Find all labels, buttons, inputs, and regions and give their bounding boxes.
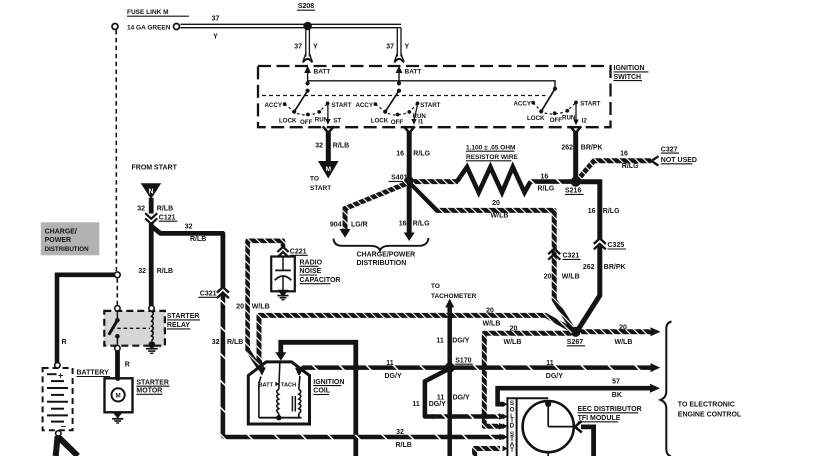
svg-text:I2: I2 — [582, 118, 588, 125]
svg-text:C121: C121 — [159, 214, 176, 221]
svg-text:32: 32 — [212, 339, 220, 346]
starter relay box — [104, 311, 165, 346]
svg-text:262: 262 — [561, 144, 573, 151]
svg-text:16: 16 — [396, 150, 404, 157]
wire R relay to starter motor — [115, 351, 120, 378]
svg-text:C321: C321 — [200, 291, 217, 298]
wire 20 W/LB coil BATT to S267 — [259, 315, 574, 368]
svg-text:START: START — [310, 185, 331, 192]
svg-text:START: START — [331, 102, 351, 109]
svg-text:11: 11 — [436, 337, 444, 344]
svg-text:COIL: COIL — [313, 388, 330, 395]
splice S216 — [571, 177, 581, 187]
splice S267 — [571, 327, 581, 337]
svg-text:N: N — [148, 188, 153, 195]
wire 904 LG/R from S401 — [345, 184, 407, 230]
svg-text:DG/Y: DG/Y — [385, 373, 402, 380]
svg-text:W/LB: W/LB — [483, 320, 501, 327]
wire 32 R/LB from N arrow — [149, 198, 154, 214]
svg-text:TO: TO — [310, 175, 319, 182]
svg-text:262: 262 — [583, 264, 595, 271]
svg-text:DG/Y: DG/Y — [452, 337, 469, 344]
svg-text:R/LB: R/LB — [396, 442, 412, 449]
svg-text:20: 20 — [486, 307, 494, 314]
coil bottom bus — [259, 417, 302, 419]
EEC distributor circle — [523, 401, 574, 452]
wire 20 W/LB arrow S267 to engine control — [580, 329, 652, 334]
coil BATT terminal arrow — [257, 367, 266, 375]
svg-text:32: 32 — [315, 143, 323, 150]
svg-text:37: 37 — [212, 16, 220, 23]
svg-text:TO ELECTRONIC: TO ELECTRONIC — [678, 402, 735, 409]
switch section 2 contacts — [374, 102, 378, 106]
ignition switch dashed box — [258, 66, 611, 127]
switch section 1 pivot — [306, 81, 310, 85]
svg-text:I1: I1 — [418, 118, 424, 125]
switch section 1 blade — [294, 91, 307, 112]
wire 11 DG/Y down from S170 — [447, 370, 452, 456]
svg-text:M: M — [116, 393, 121, 400]
svg-text:NOISE: NOISE — [300, 268, 322, 275]
svg-text:DG/Y: DG/Y — [546, 373, 563, 380]
svg-text:R/LG: R/LG — [603, 208, 620, 215]
svg-text:16: 16 — [541, 173, 549, 180]
svg-text:M: M — [326, 166, 331, 173]
connector C121 — [145, 213, 157, 224]
relay blade switch — [116, 311, 118, 318]
wire 11 DG/Y coil TACH to S170 to engine control arrow — [295, 368, 303, 375]
svg-text:32: 32 — [138, 268, 146, 275]
wire 37 Y horizontal double line — [181, 23, 402, 25]
svg-text:–: – — [61, 421, 66, 431]
svg-text:DISTRIBUTION: DISTRIBUTION — [45, 246, 90, 253]
svg-text:CHARGE/POWER: CHARGE/POWER — [357, 251, 416, 258]
svg-text:TACH: TACH — [281, 382, 296, 388]
wire R battery positive cable — [57, 275, 115, 364]
wire 32 R/LB branch right to C321 — [151, 226, 223, 289]
relay terminals — [115, 306, 120, 311]
mechanical linkage dashed line — [262, 95, 546, 97]
svg-text:IGNITION: IGNITION — [614, 65, 645, 72]
relay coil — [152, 312, 154, 341]
svg-text:R: R — [125, 361, 130, 368]
wire 37 Y drop 2 to BATT — [396, 28, 398, 57]
connector socket I1 — [404, 126, 415, 133]
connector socket at BATT feed 1 — [303, 54, 312, 62]
wire 262 BR/PK from C325 to S267 — [578, 246, 600, 331]
svg-text:ACCY: ACCY — [264, 102, 282, 109]
svg-text:W/LB: W/LB — [504, 339, 522, 346]
svg-text:20: 20 — [492, 200, 500, 207]
svg-text:R/LG: R/LG — [538, 186, 555, 193]
svg-text:W/LB: W/LB — [562, 273, 580, 280]
svg-text:20: 20 — [544, 273, 552, 280]
switch section 3 blade — [541, 89, 555, 112]
svg-text:START: START — [420, 102, 440, 109]
starter motor box — [105, 378, 133, 412]
coil TACH terminal arrow — [295, 367, 304, 375]
connector C221 — [277, 247, 288, 257]
svg-text:32: 32 — [185, 224, 193, 231]
svg-text:20: 20 — [236, 304, 244, 311]
svg-text:11: 11 — [546, 360, 554, 367]
svg-text:LOCK: LOCK — [371, 118, 389, 125]
wire 32 R/LB from ST — [326, 132, 331, 163]
svg-text:LOCK: LOCK — [279, 118, 297, 125]
wire 16 R/LG branch S216 to C327 — [578, 161, 652, 180]
splice S208 — [303, 22, 312, 31]
coil secondary winding and core — [291, 396, 293, 412]
svg-text:BR/PK: BR/PK — [581, 144, 603, 151]
coil primary winding — [279, 361, 280, 390]
svg-text:R/LG: R/LG — [622, 163, 639, 170]
svg-text:16: 16 — [588, 208, 596, 215]
wire W/LB radio capacitor branch — [248, 241, 283, 351]
svg-text:SWITCH: SWITCH — [614, 74, 642, 81]
terminal: fuse link M right terminal — [174, 24, 180, 30]
svg-text:W/LB: W/LB — [615, 339, 633, 346]
wire distributor output down — [581, 427, 594, 456]
svg-text:FROM START: FROM START — [132, 165, 178, 172]
battery cells — [47, 373, 57, 375]
svg-text:CAPACITOR: CAPACITOR — [300, 277, 341, 284]
svg-text:S267: S267 — [567, 339, 583, 346]
svg-text:LOCK: LOCK — [527, 115, 545, 122]
switch section 3 pivot — [553, 87, 557, 91]
terminal: fuse link M left terminal — [112, 24, 118, 30]
connector C321 on W/LB — [548, 249, 560, 260]
svg-text:EEC DISTRIBUTOR: EEC DISTRIBUTOR — [578, 406, 642, 413]
svg-text:1.100 ± .05 OHM: 1.100 ± .05 OHM — [466, 144, 515, 151]
capacitor C221 box — [271, 257, 295, 292]
switch section 1 ST output — [327, 105, 329, 120]
svg-text:32: 32 — [137, 206, 145, 213]
resistor wire zigzag — [457, 167, 531, 192]
svg-text:T: T — [510, 447, 514, 454]
svg-text:START: START — [580, 100, 600, 107]
wire 32 R/LB C121 down to starter relay — [149, 223, 154, 306]
svg-text:POWER: POWER — [45, 237, 71, 244]
svg-text:C327: C327 — [661, 146, 678, 153]
svg-text:BATT: BATT — [314, 69, 331, 76]
svg-text:S401: S401 — [391, 175, 407, 182]
starter motor M — [112, 388, 125, 401]
svg-text:16: 16 — [620, 151, 628, 158]
capacitor symbol — [282, 258, 284, 270]
switch section 2 blade — [385, 91, 399, 112]
svg-text:TACHOMETER: TACHOMETER — [431, 293, 477, 300]
svg-text:LG/R: LG/R — [351, 222, 368, 229]
svg-text:37: 37 — [386, 44, 394, 51]
brace to electronic engine control — [661, 322, 672, 456]
wire 16 R/LG from I1 — [407, 132, 412, 182]
svg-text:11: 11 — [386, 360, 394, 367]
svg-text:RELAY: RELAY — [167, 322, 190, 329]
wire 32 R/LB C321 down and right to TFI pin4 — [223, 295, 501, 438]
wire dashed fuse link to relay BAT terminal — [116, 279, 118, 306]
svg-text:32: 32 — [396, 429, 404, 436]
wire 16 R/LG arrow down from S401 — [407, 186, 412, 234]
wire W/LB from below to TFI pin5 — [475, 449, 500, 456]
svg-text:IGNITION: IGNITION — [313, 379, 344, 386]
svg-text:DISTRIBUTION: DISTRIBUTION — [357, 260, 407, 267]
switch section 2 I1 output — [414, 105, 418, 120]
wire 11 DG/Y S170 elbow to TFI pin2 — [425, 369, 449, 417]
svg-text:ENGINE CONTROL: ENGINE CONTROL — [678, 411, 742, 418]
ground starter motor — [113, 412, 123, 418]
svg-text:R/LB: R/LB — [157, 268, 173, 275]
svg-text:R/LB: R/LB — [227, 339, 243, 346]
switch section 3 contacts — [531, 101, 535, 105]
svg-text:W/LB: W/LB — [491, 213, 509, 220]
svg-text:11: 11 — [412, 401, 420, 408]
ground relay coil — [148, 341, 155, 348]
connector C321 left — [217, 287, 229, 298]
switch section 2 pivot — [397, 81, 401, 85]
arrow N from start — [141, 183, 161, 199]
connector socket at BATT feed 2 — [395, 54, 404, 62]
battery box dashed — [43, 368, 73, 430]
wire 16 R/LG from S216 down — [576, 182, 600, 239]
connector socket ST — [323, 126, 334, 133]
svg-text:MOTOR: MOTOR — [136, 388, 162, 395]
svg-text:R/LB: R/LB — [190, 236, 206, 243]
svg-text:DG/Y: DG/Y — [429, 401, 446, 408]
label CHARGE/POWER DISTRIBUTION gray tag — [41, 222, 100, 255]
svg-text:R: R — [62, 339, 67, 346]
svg-text:20: 20 — [510, 325, 518, 332]
wire coil + terminal (center) elbow down to bottom — [281, 342, 356, 456]
svg-text:R/LB: R/LB — [157, 206, 173, 213]
svg-text:S216: S216 — [565, 188, 581, 195]
battery terminals — [55, 363, 60, 368]
wire battery negative cable fork — [56, 436, 58, 456]
svg-text:ACCY: ACCY — [355, 102, 373, 109]
svg-text:DG/Y: DG/Y — [453, 394, 470, 401]
svg-text:Y: Y — [313, 44, 318, 51]
wire: fuse link M dashed run down left side — [115, 30, 117, 271]
TFI pin bumps — [503, 401, 508, 407]
wire 20 W/LB S267 to TFI pin3 — [484, 333, 571, 426]
svg-text:STARTER: STARTER — [167, 313, 200, 320]
wire 262 BR/PK from I2 — [573, 132, 578, 182]
svg-text:14 GA GREEN: 14 GA GREEN — [127, 25, 171, 32]
coil BATT lead — [259, 377, 261, 418]
svg-text:OFF: OFF — [391, 119, 404, 126]
svg-text:CHARGE/: CHARGE/ — [45, 228, 77, 235]
connector socket I2 — [570, 126, 581, 133]
wire 11 DG/Y arrow up to tachometer — [447, 308, 452, 366]
svg-text:R/LG: R/LG — [413, 221, 430, 228]
ground radio capacitor — [278, 290, 289, 298]
svg-text:ACCY: ACCY — [513, 100, 531, 107]
svg-text:S170: S170 — [455, 357, 471, 364]
svg-text:Y: Y — [405, 44, 410, 51]
svg-text:37: 37 — [294, 44, 302, 51]
ignition coil box — [248, 362, 309, 424]
svg-text:D: D — [510, 422, 515, 429]
svg-text:904: 904 — [330, 222, 342, 229]
wire 37 Y drop 1 to BATT — [305, 28, 307, 57]
switch BATT bus line — [308, 81, 555, 89]
wire W/LB feed S401 to resistor — [413, 179, 458, 184]
BATT arrow 2 — [396, 66, 403, 74]
connector C325 — [594, 238, 606, 249]
relay linkage dashed — [111, 327, 150, 329]
brace charge/power distribution — [334, 238, 429, 251]
wire 20 W/LB from S401 to C321 to S267 — [412, 184, 575, 331]
svg-text:RESISTOR WIRE: RESISTOR WIRE — [466, 154, 519, 161]
svg-text:16: 16 — [399, 221, 407, 228]
svg-text:BK: BK — [612, 392, 622, 399]
svg-text:20: 20 — [619, 324, 627, 331]
splice S170 — [445, 363, 455, 373]
connector C327 not used — [651, 156, 658, 165]
svg-text:C321: C321 — [563, 253, 580, 260]
svg-text:BATT: BATT — [405, 69, 422, 76]
svg-text:BATT: BATT — [259, 382, 274, 388]
svg-text:BR/PK: BR/PK — [604, 264, 626, 271]
wire 16 R/LG resistor to S216 — [530, 179, 573, 184]
switch section 1 contacts — [283, 102, 287, 106]
svg-text:+: + — [58, 371, 63, 381]
svg-text:S208: S208 — [298, 3, 314, 10]
distributor output socket — [575, 421, 582, 433]
svg-text:BATTERY: BATTERY — [77, 370, 110, 377]
svg-text:TFI MODULE: TFI MODULE — [578, 415, 621, 422]
svg-text:STARTER: STARTER — [136, 379, 169, 386]
svg-text:OFF: OFF — [300, 119, 313, 126]
wire 57 BK TFI pin1 to engine control — [498, 388, 651, 404]
svg-text:C221: C221 — [290, 249, 307, 256]
svg-text:57: 57 — [612, 378, 620, 385]
svg-text:W/LB: W/LB — [252, 304, 270, 311]
switch section 3 I2 output — [575, 104, 577, 121]
svg-text:RADIO: RADIO — [300, 260, 323, 267]
svg-text:Y: Y — [213, 34, 218, 41]
svg-text:OFF: OFF — [550, 117, 563, 124]
svg-text:NOT USED: NOT USED — [661, 157, 697, 164]
terminal battery cable to relay — [114, 272, 120, 278]
TFI module box — [507, 397, 548, 399]
svg-text:TO: TO — [431, 283, 440, 290]
splice S401 — [404, 177, 414, 187]
svg-text:C325: C325 — [608, 242, 625, 249]
svg-text:FUSE LINK M: FUSE LINK M — [127, 9, 169, 16]
svg-text:R/LB: R/LB — [333, 143, 349, 150]
svg-text:R/LG: R/LG — [413, 150, 430, 157]
svg-text:ST: ST — [333, 117, 341, 124]
BATT arrow 1 — [304, 66, 311, 74]
arrow M to start — [318, 161, 339, 179]
